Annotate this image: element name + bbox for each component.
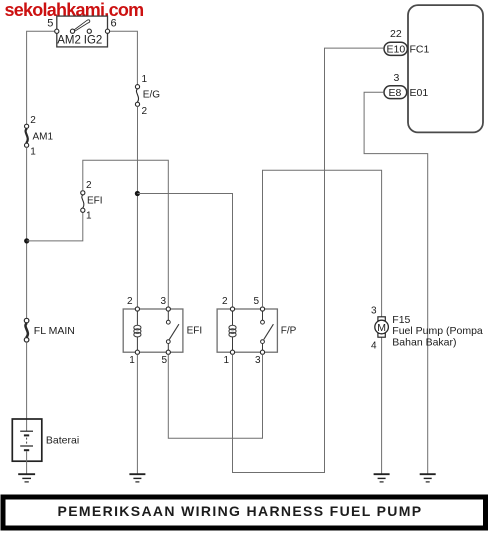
svg-text:Bahan Bakar): Bahan Bakar) (392, 337, 456, 349)
svg-text:FC1: FC1 (410, 44, 430, 56)
svg-text:E10: E10 (387, 44, 406, 56)
svg-text:2: 2 (222, 296, 228, 307)
wire: ignition switch pin 6 to E/G fuse (109, 31, 138, 84)
fuse E/G (135, 74, 160, 117)
fuse FL MAIN (24, 318, 75, 342)
svg-text:5: 5 (162, 355, 168, 366)
fuse EFI (81, 180, 103, 222)
wire: AM1 to FL MAIN (through junction) (26, 147, 28, 318)
wire: EFI fuse to EFI relay pin 3 (83, 160, 169, 307)
svg-text:FL MAIN: FL MAIN (34, 325, 75, 337)
svg-text:1: 1 (224, 355, 230, 366)
svg-text:1: 1 (142, 74, 148, 85)
relay EFI (123, 296, 202, 366)
fuse AM1 (25, 115, 54, 158)
title block (1, 495, 489, 531)
svg-text:IG2: IG2 (84, 35, 103, 47)
junction node: battery feed / EFI fuse branch (24, 238, 29, 243)
fuel pump motor F15 (371, 306, 483, 352)
svg-text:1: 1 (30, 146, 36, 157)
wire: fuel pump to ground (381, 337, 383, 474)
connector E10 pin 22 FC1 (384, 28, 429, 55)
wire: junction to EFI fuse (27, 212, 83, 241)
ignition switch AM2/IG2 (47, 16, 116, 47)
relay F/P (217, 296, 297, 366)
svg-text:E01: E01 (410, 87, 429, 99)
svg-text:3: 3 (394, 72, 400, 84)
svg-text:Baterai: Baterai (46, 435, 79, 447)
ground: battery (18, 474, 35, 482)
svg-text:2: 2 (127, 296, 133, 307)
svg-text:22: 22 (390, 28, 402, 40)
wire: E/G fuse to EFI relay pin 2 (coil) (136, 106, 138, 307)
wire: EFI relay pin 5 to F/P relay pin 3 (168, 354, 262, 438)
svg-text:E8: E8 (389, 87, 402, 99)
svg-text:AM1: AM1 (33, 132, 54, 143)
ground: ECU E01 (420, 474, 436, 482)
svg-text:5: 5 (254, 296, 260, 307)
svg-text:M: M (377, 322, 386, 334)
battery Baterai (12, 419, 79, 474)
connector E8 pin 3 E01 (384, 72, 428, 99)
wire: EFI relay pin 1 to ground (136, 354, 138, 473)
wire: ECU E01 (E8) to ground (364, 92, 428, 473)
svg-text:2: 2 (86, 180, 92, 191)
svg-text:AM2: AM2 (57, 35, 81, 47)
junction node: IG feed split to F/P relay coil (135, 191, 140, 196)
svg-text:3: 3 (371, 306, 377, 317)
svg-text:3: 3 (161, 296, 167, 307)
ECU box (408, 5, 483, 132)
svg-text:5: 5 (47, 17, 53, 29)
wire: F/P relay pin 5 to fuel pump (263, 170, 382, 317)
svg-text:E/G: E/G (143, 90, 160, 101)
svg-text:1: 1 (86, 211, 92, 222)
svg-text:1: 1 (129, 355, 135, 366)
svg-text:4: 4 (371, 340, 377, 351)
wire: junction to F/P relay pin 2 (coil) (137, 194, 232, 307)
svg-text:6: 6 (111, 18, 117, 30)
svg-text:3: 3 (255, 355, 261, 366)
wire: F/P relay pin 1 to ECU FC1 (E10) (233, 48, 384, 472)
svg-text:EFI: EFI (87, 196, 103, 207)
wire: FL MAIN to battery (26, 342, 28, 431)
svg-text:F15: F15 (392, 314, 410, 326)
ground: EFI relay pin 1 (129, 474, 145, 482)
svg-text:PEMERIKSAAN WIRING HARNESS FUE: PEMERIKSAAN WIRING HARNESS FUEL PUMP (58, 503, 423, 519)
wire: battery + to ignition switch pin 5 (27, 31, 56, 124)
svg-text:F/P: F/P (281, 326, 297, 337)
svg-text:2: 2 (142, 106, 148, 117)
ground: fuel pump (374, 474, 390, 482)
svg-text:2: 2 (30, 115, 36, 126)
svg-text:Fuel Pump (Pompa: Fuel Pump (Pompa (392, 325, 483, 337)
svg-text:EFI: EFI (187, 326, 203, 337)
